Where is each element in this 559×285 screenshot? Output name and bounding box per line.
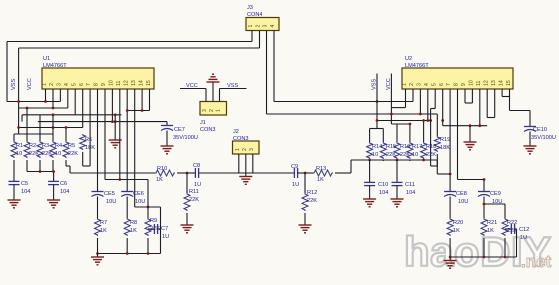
resistor R5 22K [63, 141, 78, 158]
svg-text:C12: C12 [519, 227, 529, 233]
svg-text:CON4: CON4 [247, 12, 263, 18]
connector J2 CON3 [233, 141, 260, 154]
svg-text:R1: R1 [16, 143, 23, 149]
junction VCC col on J3 pin3 rail [390, 113, 393, 116]
svg-text:10: 10 [412, 152, 418, 158]
svg-text:10: 10 [16, 151, 22, 157]
junction pin1 on rail [44, 100, 47, 103]
svg-text:1K: 1K [156, 177, 163, 183]
svg-text:C8: C8 [193, 163, 200, 169]
wire R4 bottom / C6 column [52, 160, 55, 181]
svg-text:14: 14 [498, 80, 504, 86]
svg-text:C6: C6 [60, 181, 67, 187]
wire R4 column [52, 115, 54, 141]
wire R12 column [304, 173, 306, 193]
wire J2 pins to line [239, 154, 253, 173]
junction line174 CE8 [449, 173, 452, 176]
svg-text:22K: 22K [426, 152, 436, 158]
svg-text:R20: R20 [453, 220, 463, 226]
svg-text:18K: 18K [440, 145, 450, 151]
wire pin8 column to CE5 [97, 89, 99, 191]
wire J3 pin4 to right rail [274, 31, 413, 102]
svg-text:13: 13 [131, 80, 137, 86]
svg-text:R22: R22 [507, 220, 517, 226]
svg-text:3: 3 [416, 83, 422, 86]
wire q8 column line179 [458, 89, 485, 180]
junction pin10 on rail4 [111, 120, 114, 123]
junction VSS column on rail1 [17, 100, 20, 103]
connector J3 CON4 [246, 5, 279, 31]
svg-text:J2: J2 [233, 129, 239, 135]
wire right bottom bus [450, 256, 516, 258]
wire C5 to ground [13, 185, 15, 200]
svg-text:R10: R10 [157, 166, 167, 172]
svg-text:CON3: CON3 [233, 136, 249, 142]
junction R9 column on line207 [147, 206, 150, 209]
svg-text:7: 7 [86, 83, 92, 86]
wire J3 pin1 to left VCC bus [7, 31, 252, 102]
wire R1 to C5 [13, 160, 15, 181]
wire q9 q10 hook [465, 89, 472, 103]
resistor R21 1K [481, 218, 497, 236]
svg-text:1U: 1U [162, 234, 169, 240]
wire C10 column [369, 160, 371, 182]
svg-text:2: 2 [242, 148, 248, 151]
junction ground stem on rail4 [114, 120, 117, 123]
wire rail u2 right [377, 89, 431, 121]
wire J3 pin2 to left VSS bus [19, 31, 260, 109]
resistor R14 10 [367, 142, 383, 159]
wire R13 to right bus [335, 160, 370, 173]
svg-text:12: 12 [123, 80, 129, 86]
svg-text:4: 4 [270, 25, 276, 28]
svg-text:CE5: CE5 [104, 191, 115, 197]
wire q14 q15 jog [502, 89, 509, 111]
ground right bus [444, 257, 457, 268]
svg-text:CE6: CE6 [133, 191, 144, 197]
wire rail R14 R15 tops [370, 129, 384, 143]
wire rail VSS-U1 [19, 89, 68, 108]
wire R5 bottom to signal line [66, 160, 70, 173]
wire R11 column [186, 173, 188, 193]
resistor R1 10 [11, 141, 23, 158]
svg-text:10: 10 [469, 80, 475, 86]
resistor R16 22K [394, 142, 410, 159]
svg-text:8: 8 [454, 83, 460, 86]
wire pin11 column [119, 89, 121, 180]
svg-text:9: 9 [461, 83, 467, 86]
wire VCC stub to J1 pin3 [180, 89, 206, 102]
svg-text:R5: R5 [68, 143, 75, 149]
svg-text:1: 1 [248, 25, 254, 28]
wire C10 ground lead [369, 186, 371, 199]
wire CE9 column [483, 180, 485, 192]
wire R19 top column [432, 114, 438, 136]
svg-text:R8: R8 [130, 220, 137, 226]
wire signal line left [70, 172, 155, 174]
resistor R10 1K [155, 166, 175, 183]
wire R1 column [13, 134, 15, 141]
junction ground stem right mesh [469, 124, 472, 127]
svg-text:104: 104 [379, 190, 388, 196]
wire R22 to bus [504, 238, 506, 257]
wire left bottom bus [98, 253, 161, 255]
svg-text:10: 10 [55, 151, 61, 157]
junction R4 column on rail5 [52, 126, 55, 129]
wire to R13 [305, 172, 313, 174]
wire rail 125 under U2 [443, 125, 488, 127]
svg-text:U2: U2 [405, 56, 412, 62]
junction rail204 [483, 203, 486, 206]
svg-text:6: 6 [79, 83, 85, 86]
wire rail R16 R17 tops [391, 124, 410, 142]
svg-text:35V/100U: 35V/100U [531, 135, 556, 141]
capacitor C11 104 [392, 182, 416, 196]
svg-text:5: 5 [71, 83, 77, 86]
svg-text:J3: J3 [247, 5, 253, 11]
svg-text:3: 3 [56, 83, 62, 86]
junction R8 on bus [126, 252, 129, 255]
wire C11 column [396, 160, 398, 182]
svg-text:14: 14 [138, 80, 144, 86]
wire R6 bottom loop to pin7 [83, 89, 90, 166]
svg-text:J1: J1 [200, 120, 206, 126]
svg-text:9: 9 [101, 83, 107, 86]
resistor R7 1K [95, 218, 108, 236]
resistor R4 10 [50, 141, 62, 158]
svg-text:R6: R6 [85, 137, 92, 143]
svg-text:R3: R3 [42, 143, 49, 149]
capacitor C6 104 [48, 181, 69, 195]
wire rail VCC-U1 [7, 89, 60, 102]
connector J1 CON3 [200, 102, 227, 116]
svg-text:4: 4 [424, 83, 430, 86]
junction VSS col rail u2 [376, 119, 379, 122]
svg-text:15: 15 [506, 80, 512, 86]
capacitor CE10 35V/100U [524, 127, 556, 142]
resistor R8 1K [124, 218, 137, 236]
wire rail 5 under U1 [14, 89, 83, 134]
ground under C5 [8, 200, 21, 208]
junction R22 bus [504, 256, 507, 259]
svg-text:11: 11 [116, 81, 122, 86]
wire rail 3 under U1 [22, 89, 121, 122]
resistor R13 1K [313, 166, 333, 183]
svg-text:6: 6 [439, 83, 445, 86]
wire R5 column [65, 128, 67, 142]
svg-text:C9: C9 [291, 164, 298, 170]
wire rail6 pin12-pin15 [127, 89, 149, 111]
wire R20 to bus [449, 238, 451, 257]
svg-text:15: 15 [146, 80, 152, 86]
wire C12 left lead [505, 228, 511, 230]
wire C8 left lead [187, 172, 195, 174]
capacitor C5 104 [9, 181, 31, 195]
capacitor C8 1U [193, 163, 201, 188]
capacitor CE7 35V/100U [161, 126, 198, 142]
ground under U2 mesh [464, 126, 477, 150]
svg-text:R12: R12 [307, 190, 317, 196]
wire CE7 feed [166, 122, 168, 126]
svg-text:CE9: CE9 [490, 191, 501, 197]
resistor R17 10 [407, 142, 422, 159]
wire R8 to bus [126, 238, 128, 254]
svg-text:1K: 1K [100, 228, 107, 234]
svg-text:R9: R9 [150, 218, 157, 224]
svg-text:13: 13 [491, 80, 497, 86]
svg-text:10U: 10U [106, 199, 116, 205]
wire CE10 to ground [529, 132, 531, 147]
junction VSS column on J3 rail [376, 100, 379, 103]
junction CE9 feed [483, 178, 486, 181]
svg-text:CON3: CON3 [200, 127, 216, 133]
junction pin12 rail6 [126, 109, 129, 112]
wire C9 to junction [298, 172, 305, 174]
wire right bus y160 [351, 160, 437, 161]
wire C8 to J2 line [199, 172, 294, 174]
wire pin12 column to CE6 [126, 111, 128, 192]
capacitor CE9 10U [478, 191, 502, 205]
wire R2 column [26, 108, 28, 141]
junction R5 on rail5 [65, 126, 68, 129]
svg-text:10: 10 [372, 152, 378, 158]
junction q11 on rail125 [478, 124, 481, 127]
capacitor C10 104 [364, 182, 388, 196]
capacitor C9 1U [291, 164, 299, 188]
wire VSS stub to J1 pin1 [220, 89, 247, 102]
junction R10/C8/R11 [186, 172, 189, 175]
svg-text:104: 104 [406, 190, 415, 196]
junction R14 bus [368, 159, 371, 162]
ground under C11 [391, 199, 404, 207]
wire J3 pin3 to right rail [267, 31, 432, 115]
wire C11 ground lead [396, 186, 398, 199]
svg-text:12: 12 [483, 80, 489, 86]
svg-text:2: 2 [209, 109, 215, 112]
wire C7 right lead to bus corner [158, 207, 161, 254]
resistor R11 22K [184, 189, 199, 211]
junction q4 rail [426, 119, 429, 122]
wire VSS column right [376, 74, 378, 129]
svg-text:2: 2 [49, 83, 55, 86]
wire R2 bottom [27, 160, 54, 172]
wire R18 top column [423, 121, 425, 143]
svg-text:VCC: VCC [186, 83, 198, 89]
ground under C10 [363, 199, 376, 207]
svg-text:1K: 1K [453, 228, 460, 234]
svg-text:4: 4 [64, 83, 70, 86]
svg-text:R4: R4 [55, 143, 62, 149]
svg-text:104: 104 [60, 189, 69, 195]
wire pin9 column to R9 feed line [105, 89, 148, 218]
junction VSS column on rail5 [17, 126, 20, 129]
svg-text:1U: 1U [194, 182, 201, 188]
ground under U1 mesh [109, 115, 122, 148]
watermark haoDIY.net [404, 228, 552, 275]
junction q6 rail120 [441, 119, 444, 122]
svg-text:LM4766T: LM4766T [43, 63, 67, 69]
junction R7 on bus [96, 252, 99, 255]
svg-text:R19: R19 [440, 137, 450, 143]
svg-text:2: 2 [409, 83, 415, 86]
svg-text:R11: R11 [189, 189, 199, 195]
resistor R19 18K [434, 136, 450, 152]
capacitor C12 1U [511, 224, 529, 241]
svg-text:22K: 22K [189, 197, 199, 203]
capacitor CE8 10U [444, 191, 468, 205]
junction C6 column [52, 170, 55, 173]
svg-text:3: 3 [202, 109, 208, 112]
junction R21 bus [483, 256, 486, 259]
wire pin13 column to line207 [135, 89, 161, 207]
resistor R22 22K [502, 218, 517, 236]
wire q11 stub to rail125 [479, 89, 481, 126]
wire R9 to bus [147, 238, 149, 254]
svg-text:10U: 10U [135, 199, 145, 205]
junction R4 column on rail3 [52, 113, 55, 116]
wire C6 to ground [53, 185, 55, 200]
junction R16 bus [396, 159, 399, 162]
wire R12 to ground [304, 213, 306, 225]
junction R18 bus [422, 159, 425, 162]
ground under R11 [181, 225, 194, 233]
wire R3 column [39, 115, 41, 141]
ground under R12 [299, 225, 312, 233]
svg-text:22K: 22K [68, 151, 78, 157]
ground left bus [91, 254, 104, 265]
ground under J2 [239, 173, 252, 184]
svg-text:C11: C11 [405, 182, 415, 188]
junction R9 on bus [147, 252, 150, 255]
resistor R2 22K [24, 141, 39, 158]
resistor R12 22K [302, 190, 317, 211]
wire R3 bottom [39, 160, 41, 172]
op-amp IC U2 LM4766T [402, 56, 514, 89]
ground under CE7 [161, 146, 174, 154]
op-amp IC U1 LM4766T [42, 56, 155, 89]
resistor R6 18K [80, 134, 96, 151]
svg-text:8: 8 [94, 83, 100, 86]
svg-text:CE8: CE8 [456, 191, 467, 197]
wire R19 bottom loop to q5 [431, 89, 438, 166]
wire R21 to bus [483, 238, 485, 257]
junction R19 leg rail [429, 119, 432, 122]
wire C12 right lead [515, 229, 517, 257]
svg-text:U1: U1 [43, 56, 50, 62]
svg-text:1: 1 [42, 83, 48, 86]
svg-text:22K: 22K [307, 198, 317, 204]
junction pin14 rail6 [141, 109, 144, 112]
capacitor CE5 10U [92, 191, 117, 205]
svg-text:C5: C5 [21, 181, 28, 187]
svg-text:1: 1 [216, 109, 222, 112]
svg-text:CE10: CE10 [533, 127, 547, 133]
svg-text:R2: R2 [29, 143, 36, 149]
wire CE6 to R8 [126, 197, 128, 219]
resistor R3 22K [37, 141, 52, 158]
wire VCC column right [391, 74, 405, 125]
resistor R9 22K [145, 218, 160, 236]
svg-text:R21: R21 [487, 220, 497, 226]
svg-text:C10: C10 [378, 182, 388, 188]
svg-text:C7: C7 [161, 226, 168, 232]
junction R3 bottom [39, 170, 42, 173]
wire q3 stub to rail114 [419, 89, 421, 114]
wire CE9 to R21 [483, 197, 485, 219]
wire line y174 [437, 160, 450, 174]
wire R11 to ground [186, 213, 188, 225]
junction C9/R12/R13 [304, 172, 307, 175]
capacitor C7 1U [154, 224, 169, 240]
svg-text:1: 1 [402, 83, 408, 86]
wire C7 left lead [148, 228, 154, 230]
svg-text:R13: R13 [316, 166, 326, 172]
svg-text:7: 7 [446, 83, 452, 86]
junction R17 top rail [409, 123, 412, 126]
svg-text:10U: 10U [458, 199, 468, 205]
capacitor CE6 10U [121, 191, 145, 205]
svg-text:1U: 1U [520, 235, 527, 241]
wire rail to CE10 [510, 111, 531, 127]
wire CE8 to R20 [449, 197, 451, 219]
svg-text:35V/100U: 35V/100U [173, 135, 198, 141]
wire CE7 to ground [166, 131, 168, 147]
resistor R18 22K [421, 142, 437, 159]
power ground above J1 [207, 74, 220, 82]
svg-text:1U: 1U [292, 182, 299, 188]
svg-text:104: 104 [21, 189, 30, 195]
svg-text:CE7: CE7 [174, 127, 185, 133]
svg-text:3: 3 [263, 25, 269, 28]
svg-text:11: 11 [476, 81, 482, 86]
svg-text:.net: .net [521, 252, 552, 271]
junction pin11 on feed line [118, 178, 121, 181]
resistor R20 1K [447, 218, 463, 236]
junction pin2 on rail2 [52, 107, 55, 110]
wire rail 4 under U1 [38, 89, 167, 122]
svg-text:LM4766T: LM4766T [405, 63, 429, 69]
svg-text:1K: 1K [130, 228, 137, 234]
ground under C6 [47, 200, 60, 208]
svg-text:10: 10 [109, 80, 115, 86]
svg-text:VSS: VSS [11, 79, 17, 90]
junction q3 rail [419, 113, 422, 116]
junction ground column rail3 [114, 113, 117, 116]
svg-text:1K: 1K [317, 177, 324, 183]
svg-text:3: 3 [249, 148, 255, 151]
ground under CE10 [524, 146, 537, 154]
svg-text:VSS: VSS [227, 83, 238, 89]
resistor R15 22K [380, 142, 396, 159]
junction R2 column [26, 107, 29, 110]
svg-text:1: 1 [235, 148, 241, 151]
wire q7 column to CE8 [449, 89, 451, 191]
wire J1 pin2 to earth [212, 82, 214, 102]
wire rail y204 to R22 [484, 204, 505, 218]
wire CE5 to R7 [97, 197, 99, 219]
junction R18 top [422, 119, 425, 122]
wire R10 to junction [177, 172, 187, 174]
wire q12 q13 hook [487, 89, 495, 118]
svg-text:R7: R7 [100, 220, 107, 226]
svg-text:1K: 1K [487, 228, 494, 234]
wire q6 column to rail125 [442, 89, 444, 126]
svg-text:5: 5 [431, 83, 437, 86]
svg-text:2: 2 [256, 25, 262, 28]
svg-text:R18: R18 [426, 144, 436, 150]
junction R20 bus [449, 256, 452, 259]
wire R7 to bus [97, 238, 99, 254]
